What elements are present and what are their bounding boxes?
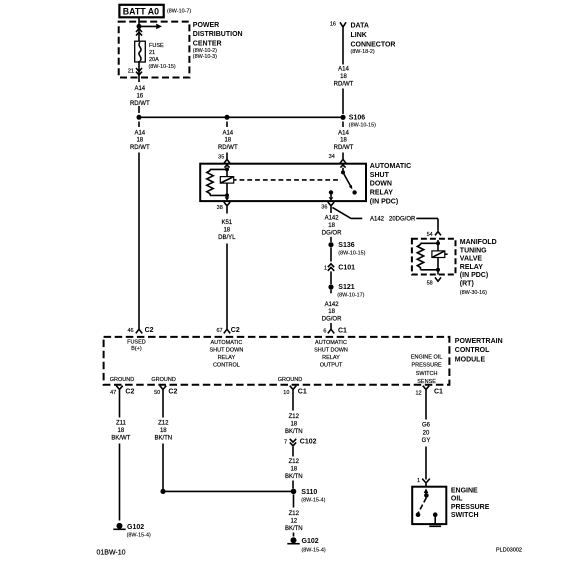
svg-text:RD/WT: RD/WT	[130, 145, 150, 151]
svg-text:MODULE: MODULE	[455, 356, 486, 363]
svg-text:Z12: Z12	[158, 421, 169, 427]
svg-text:01BW-10: 01BW-10	[97, 550, 126, 557]
svg-text:20: 20	[423, 430, 430, 436]
svg-text:MANIFOLD: MANIFOLD	[460, 239, 497, 246]
svg-text:CONNECTOR: CONNECTOR	[351, 41, 396, 48]
svg-text:TUNING: TUNING	[460, 247, 487, 254]
svg-text:(8W-10-15): (8W-10-15)	[338, 250, 365, 256]
svg-text:ENGINE OIL: ENGINE OIL	[411, 355, 442, 361]
svg-text:SWITCH: SWITCH	[416, 371, 438, 377]
svg-text:34: 34	[329, 154, 335, 160]
svg-text:PRESSURE: PRESSURE	[411, 363, 442, 369]
svg-text:DG/OR: DG/OR	[322, 317, 342, 323]
svg-text:SENSE: SENSE	[417, 379, 436, 385]
svg-text:12: 12	[290, 519, 297, 525]
svg-text:GROUND: GROUND	[151, 377, 175, 383]
svg-text:AUTOMATIC: AUTOMATIC	[370, 163, 411, 170]
svg-text:LINK: LINK	[351, 32, 367, 39]
svg-text:50: 50	[154, 390, 160, 396]
svg-text:18: 18	[290, 467, 297, 473]
svg-text:POWERTRAIN: POWERTRAIN	[455, 338, 503, 345]
svg-text:CENTER: CENTER	[193, 40, 222, 47]
svg-text:A14: A14	[338, 67, 349, 73]
svg-text:(8W-15-4): (8W-15-4)	[301, 498, 325, 504]
svg-text:18: 18	[118, 428, 125, 434]
svg-text:DATA: DATA	[351, 23, 369, 30]
svg-text:DISTRIBUTION: DISTRIBUTION	[193, 31, 243, 38]
svg-text:DG/OR: DG/OR	[322, 231, 342, 237]
svg-text:18: 18	[224, 138, 231, 144]
svg-text:(8W-10-3): (8W-10-3)	[193, 54, 217, 60]
svg-text:18: 18	[340, 138, 347, 144]
svg-text:S106: S106	[349, 114, 365, 121]
svg-text:(RT): (RT)	[460, 281, 474, 288]
svg-text:C102: C102	[300, 439, 317, 446]
svg-text:RELAY: RELAY	[460, 264, 483, 271]
svg-text:38: 38	[217, 205, 223, 211]
svg-text:POWER: POWER	[193, 22, 219, 29]
svg-text:PLD03002: PLD03002	[496, 548, 522, 554]
svg-text:OUTPUT: OUTPUT	[320, 363, 343, 369]
svg-text:18: 18	[328, 309, 335, 315]
svg-text:18: 18	[290, 421, 297, 427]
svg-text:(8W-10-17): (8W-10-17)	[337, 292, 364, 298]
svg-text:DOWN: DOWN	[370, 181, 392, 188]
svg-text:DB/YL: DB/YL	[218, 235, 236, 241]
svg-text:21: 21	[149, 50, 155, 56]
svg-text:35: 35	[218, 155, 224, 161]
svg-text:S110: S110	[301, 489, 317, 496]
svg-text:RD/WT: RD/WT	[218, 145, 238, 151]
svg-text:67: 67	[216, 328, 222, 334]
svg-text:18: 18	[136, 138, 143, 144]
svg-text:C101: C101	[338, 264, 355, 271]
svg-text:BATT A0: BATT A0	[123, 6, 159, 16]
svg-text:A14: A14	[134, 130, 145, 136]
svg-text:RELAY: RELAY	[370, 190, 393, 197]
svg-text:AUTOMATIC: AUTOMATIC	[315, 340, 347, 346]
svg-text:G6: G6	[422, 423, 431, 429]
svg-text:18: 18	[328, 223, 335, 229]
svg-text:18: 18	[160, 428, 167, 434]
svg-text:(IN PDC): (IN PDC)	[370, 198, 398, 205]
svg-text:C1: C1	[434, 389, 443, 396]
svg-text:C2: C2	[125, 389, 134, 396]
svg-text:A142: A142	[325, 216, 340, 222]
svg-text:A142: A142	[325, 302, 340, 308]
svg-text:ENGINE: ENGINE	[451, 487, 478, 494]
svg-text:18: 18	[340, 74, 347, 80]
svg-text:K51: K51	[221, 220, 232, 226]
svg-text:C2: C2	[231, 327, 240, 334]
svg-text:(8W-15-4): (8W-15-4)	[127, 532, 151, 538]
svg-text:BK/TN: BK/TN	[285, 474, 303, 480]
svg-text:C2: C2	[145, 327, 154, 334]
svg-text:S121: S121	[338, 284, 354, 291]
svg-text:Z12: Z12	[289, 511, 300, 517]
svg-text:C2: C2	[168, 389, 177, 396]
svg-text:(8W-10-15): (8W-10-15)	[349, 123, 376, 129]
svg-text:A142: A142	[370, 216, 385, 222]
svg-text:Z12: Z12	[289, 414, 300, 420]
svg-text:FUSED: FUSED	[127, 340, 146, 346]
svg-text:47: 47	[110, 390, 116, 396]
svg-text:(8W-10-15): (8W-10-15)	[149, 64, 176, 70]
svg-text:(8W-10-7): (8W-10-7)	[167, 9, 191, 15]
svg-text:AUTOMATIC: AUTOMATIC	[210, 340, 242, 346]
svg-text:Z11: Z11	[116, 421, 127, 427]
svg-text:A14: A14	[134, 86, 145, 92]
svg-text:7: 7	[284, 440, 287, 446]
svg-text:SWITCH: SWITCH	[451, 512, 479, 519]
svg-text:RD/WT: RD/WT	[334, 82, 354, 88]
svg-text:20DG/OR: 20DG/OR	[389, 216, 416, 222]
svg-text:RELAY: RELAY	[218, 355, 236, 361]
svg-text:54: 54	[427, 232, 433, 238]
svg-text:GY: GY	[422, 438, 431, 444]
svg-text:46: 46	[127, 328, 133, 334]
svg-text:C1: C1	[298, 389, 307, 396]
svg-text:CONTROL: CONTROL	[455, 347, 490, 354]
svg-text:C1: C1	[338, 327, 347, 334]
svg-text:PRESSURE: PRESSURE	[451, 504, 490, 511]
svg-text:VALVE: VALVE	[460, 256, 483, 263]
svg-text:SHUT DOWN: SHUT DOWN	[314, 347, 348, 353]
svg-text:RD/WT: RD/WT	[130, 101, 150, 107]
svg-text:(IN PDC): (IN PDC)	[460, 272, 488, 279]
svg-text:GROUND: GROUND	[110, 377, 134, 383]
svg-text:G102: G102	[302, 538, 319, 545]
svg-text:1: 1	[324, 265, 327, 271]
svg-text:20A: 20A	[149, 57, 159, 63]
svg-text:FUSE: FUSE	[149, 43, 164, 49]
svg-text:21: 21	[128, 68, 134, 74]
svg-text:6: 6	[323, 328, 326, 334]
svg-text:10: 10	[283, 390, 289, 396]
svg-text:(8W-30-16): (8W-30-16)	[460, 290, 487, 296]
svg-text:A14: A14	[222, 130, 233, 136]
svg-text:GROUND: GROUND	[278, 377, 302, 383]
svg-text:CONTROL: CONTROL	[213, 363, 240, 369]
svg-text:18: 18	[223, 228, 230, 234]
svg-text:RELAY: RELAY	[322, 355, 340, 361]
svg-text:Z12: Z12	[289, 459, 300, 465]
svg-text:RD/WT: RD/WT	[334, 145, 354, 151]
svg-text:58: 58	[427, 280, 433, 286]
svg-text:BK/TN: BK/TN	[285, 526, 303, 532]
svg-text:(8W-18-2): (8W-18-2)	[351, 49, 375, 55]
svg-text:BK/TN: BK/TN	[285, 429, 303, 435]
svg-text:SHUT DOWN: SHUT DOWN	[209, 347, 243, 353]
svg-text:36: 36	[321, 205, 327, 211]
svg-text:16: 16	[136, 93, 143, 99]
svg-text:A14: A14	[338, 130, 349, 136]
svg-text:1: 1	[417, 478, 420, 484]
svg-text:SHUT: SHUT	[370, 172, 390, 179]
svg-text:B(+): B(+)	[131, 346, 142, 352]
svg-text:OIL: OIL	[451, 496, 463, 503]
svg-text:S136: S136	[338, 242, 354, 249]
svg-text:12: 12	[415, 391, 421, 397]
svg-text:BK/WT: BK/WT	[111, 436, 130, 442]
svg-text:(8W-15-4): (8W-15-4)	[302, 547, 326, 553]
svg-text:G102: G102	[127, 524, 144, 531]
svg-text:16: 16	[330, 22, 336, 28]
svg-text:BK/TN: BK/TN	[154, 436, 172, 442]
